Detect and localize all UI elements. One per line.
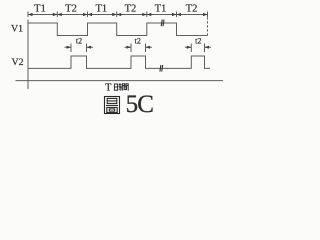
svg-text:T1: T1 — [95, 4, 107, 15]
svg-text:T2: T2 — [186, 4, 198, 15]
svg-text:T2: T2 — [65, 4, 77, 15]
svg-text:t2: t2 — [135, 37, 141, 46]
svg-text:T2: T2 — [125, 4, 137, 15]
svg-text:T: T — [105, 83, 111, 94]
svg-text:V2: V2 — [12, 57, 24, 68]
svg-text:t2: t2 — [195, 37, 201, 46]
svg-text:t2: t2 — [76, 37, 82, 46]
svg-text:5C: 5C — [126, 91, 154, 118]
svg-text:V1: V1 — [11, 23, 23, 34]
svg-text:T1: T1 — [34, 4, 46, 15]
svg-text:T1: T1 — [155, 4, 167, 15]
